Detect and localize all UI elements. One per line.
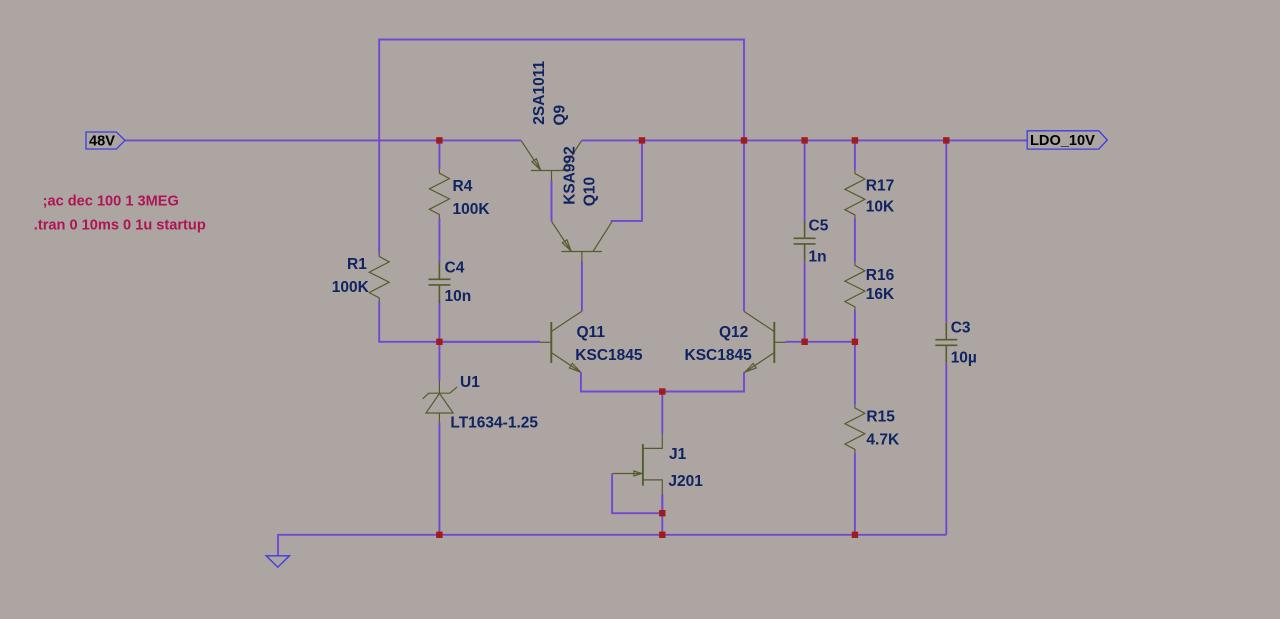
svg-text:J201: J201 — [668, 473, 703, 490]
transistor J1 (JFET) — [613, 434, 663, 495]
svg-text:100K: 100K — [453, 201, 491, 218]
wire R15 bottom to ground rail — [854, 453, 856, 535]
wire output rail Q9 collector to LDO flag — [581, 139, 1027, 142]
wire top feedback loop — [379, 40, 744, 253]
capacitor C4 — [428, 262, 450, 302]
wire C4 bottom lead — [438, 301, 440, 342]
net flag 48V — [86, 132, 125, 150]
svg-text:Q9: Q9 — [552, 104, 569, 125]
wire output rail down to Q12 collector — [743, 140, 745, 311]
net flag LDO_10V — [1027, 131, 1107, 149]
wire junction dots — [436, 137, 949, 538]
wire tap to R15 — [854, 342, 856, 405]
wire C3 bottom to ground rail — [945, 363, 947, 535]
resistor R1 — [369, 253, 389, 301]
resistor R17 — [845, 170, 865, 218]
wire R1 bottom to node A — [379, 301, 540, 342]
svg-text:.tran 0 10ms 0 1u startup: .tran 0 10ms 0 1u startup — [34, 218, 206, 234]
wire R4 top lead — [438, 140, 440, 170]
resistor R15 — [845, 404, 865, 452]
wire C3 top lead — [945, 140, 947, 323]
svg-text:10µ: 10µ — [951, 350, 977, 367]
svg-text:LT1634-1.25: LT1634-1.25 — [450, 415, 538, 432]
svg-text:LDO_10V: LDO_10V — [1030, 133, 1095, 149]
wire R16 bottom to tap — [854, 310, 856, 342]
transistor Q11 — [540, 311, 582, 372]
svg-text:Q10: Q10 — [581, 177, 598, 206]
wire 48V rail from flag to Q9 emitter — [125, 139, 521, 141]
wire R4 to C4 — [438, 218, 440, 262]
svg-text:1n: 1n — [809, 248, 827, 265]
svg-text:10K: 10K — [866, 198, 895, 215]
svg-text:KSC1845: KSC1845 — [685, 347, 753, 364]
svg-text:48V: 48V — [89, 134, 115, 150]
svg-text:C3: C3 — [951, 319, 971, 336]
wire Q10 collector to output rail — [612, 140, 642, 222]
svg-text:R15: R15 — [866, 409, 895, 426]
wire tail node to J1 drain — [661, 392, 663, 434]
svg-text:Q11: Q11 — [577, 324, 606, 341]
svg-text:R16: R16 — [866, 267, 895, 284]
svg-text:10n: 10n — [445, 288, 472, 305]
wire Q11 base node — [439, 341, 540, 343]
wire U1 bottom to ground rail — [438, 423, 440, 535]
wire Q9 base to Q10 emitter — [551, 180, 553, 221]
wire C5 bottom lead — [804, 262, 806, 342]
svg-text:;ac dec 100 1 3MEG: ;ac dec 100 1 3MEG — [43, 193, 179, 209]
svg-text:Q12: Q12 — [719, 324, 748, 341]
svg-text:C4: C4 — [445, 259, 465, 276]
wire U1 top lead — [438, 342, 440, 381]
resistor R4 — [429, 170, 449, 218]
wire J1 gate to source loop — [612, 474, 662, 514]
wire ground rail — [278, 535, 946, 556]
svg-text:4.7K: 4.7K — [866, 432, 900, 449]
svg-text:R4: R4 — [453, 178, 473, 195]
voltage reference U1 — [423, 381, 458, 423]
wire R17 top lead — [854, 140, 856, 170]
svg-text:16K: 16K — [866, 286, 895, 303]
transistor Q10 — [552, 222, 612, 262]
wire J1 source to ground rail — [661, 495, 663, 535]
wire Q12 emitter to tail node — [662, 372, 745, 391]
wire Q11 emitter to tail node — [581, 372, 663, 391]
svg-text:C5: C5 — [809, 218, 829, 235]
capacitor C3 — [935, 323, 957, 363]
transistor Q9 — [521, 141, 581, 181]
svg-text:2SA1011: 2SA1011 — [531, 61, 548, 125]
svg-text:100K: 100K — [332, 279, 370, 296]
svg-text:R1: R1 — [347, 256, 367, 273]
wire C5 top lead — [804, 140, 806, 222]
wire R17 to R16 — [854, 218, 856, 261]
svg-text:J1: J1 — [669, 446, 687, 463]
wire Q12 base to divider tap — [786, 341, 855, 343]
transistor Q12 — [744, 311, 786, 372]
ground — [266, 556, 289, 567]
svg-text:R17: R17 — [866, 178, 894, 195]
wire Q10 base to Q11 collector — [581, 262, 583, 312]
svg-text:KSC1845: KSC1845 — [575, 347, 643, 364]
svg-text:KSA992: KSA992 — [562, 146, 579, 205]
resistor R16 — [845, 262, 865, 310]
svg-text:U1: U1 — [460, 374, 480, 391]
capacitor C5 — [794, 221, 816, 261]
